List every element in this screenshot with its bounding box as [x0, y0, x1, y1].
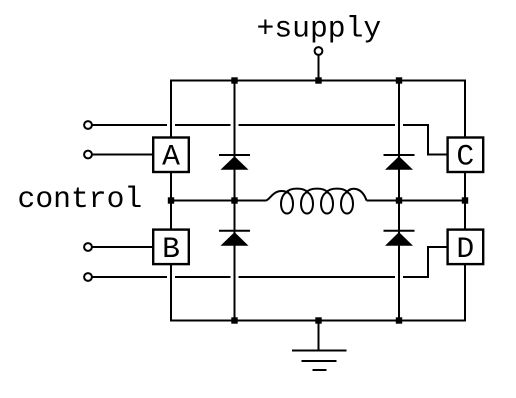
wire control D: horizontal segment 1 [93, 276, 168, 278]
diode lower-left [219, 231, 250, 246]
wire mid rail left [171, 200, 266, 202]
wire control C: vertical drop [428, 125, 448, 155]
wire control D: horizontal segment 4 [403, 276, 429, 278]
wire control B [93, 246, 154, 248]
wire top rail [170, 80, 466, 82]
wire control C: horizontal segment 4 [403, 124, 429, 126]
control terminal pin 1 [84, 121, 92, 129]
svg-text:A: A [162, 140, 180, 174]
junction bottom-right diode leg [396, 317, 402, 323]
switch A [153, 138, 189, 174]
diode lower-right [384, 231, 415, 246]
switch C [448, 138, 484, 174]
junction top-left diode leg [231, 77, 237, 83]
wire control C: horizontal segment 2 [175, 124, 231, 126]
svg-text:control: control [18, 182, 143, 216]
supply terminal pin [315, 47, 323, 55]
wire left leg lower [170, 265, 172, 321]
junction bottom ground [315, 317, 321, 323]
wire right diode leg [398, 81, 400, 321]
junction bottom-left diode leg [231, 317, 237, 323]
wire right leg lower [464, 265, 466, 321]
junction mid left leg [168, 197, 174, 203]
wire bottom rail [170, 320, 466, 322]
wire right leg upper [464, 81, 466, 137]
wire left leg middle [170, 173, 172, 229]
svg-text:+supply: +supply [257, 12, 382, 46]
wire mid rail right [367, 200, 466, 202]
wire control D: horizontal segment 3 [239, 276, 396, 278]
wire control D: vertical rise [428, 247, 448, 277]
junction top-right diode leg [396, 77, 402, 83]
inductor L1 [266, 189, 367, 214]
wire control A [93, 154, 154, 156]
junction mid left diode leg [231, 197, 237, 203]
switch D [448, 230, 484, 266]
wire left leg upper [170, 81, 172, 137]
diode upper-right [384, 155, 415, 170]
wire control C: horizontal segment 1 [93, 124, 168, 126]
wire control C: horizontal segment 3 [239, 124, 396, 126]
wire left diode leg [234, 81, 236, 321]
svg-text:C: C [456, 140, 474, 174]
diode upper-left [219, 155, 250, 170]
wire control D: horizontal segment 2 [175, 276, 231, 278]
wire right leg middle [464, 173, 466, 229]
control terminal pin 3 [84, 243, 92, 251]
control terminal pin 2 [84, 151, 92, 159]
svg-text:B: B [162, 232, 180, 266]
junction mid right leg [462, 197, 468, 203]
junction mid right diode leg [396, 197, 402, 203]
svg-text:D: D [456, 232, 474, 266]
control terminal pin 4 [84, 273, 92, 281]
wire supply stub [318, 56, 320, 81]
ground [292, 321, 347, 371]
junction top supply [315, 77, 321, 83]
switch B [153, 230, 189, 266]
